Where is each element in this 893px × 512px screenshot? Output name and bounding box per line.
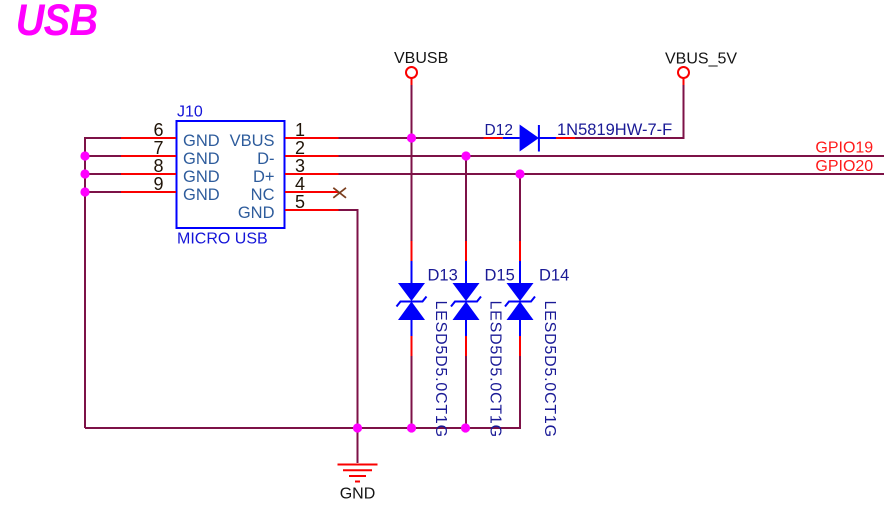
junction dot D15 bus xyxy=(461,423,470,432)
junction dot D15 row2 xyxy=(461,151,470,160)
TVS diode D14 xyxy=(505,241,535,356)
svg-text:7: 7 xyxy=(153,138,163,158)
pin 1 stub xyxy=(285,137,339,139)
svg-text:8: 8 xyxy=(153,156,163,176)
svg-text:GND: GND xyxy=(183,186,220,204)
wire pin6 to bus xyxy=(84,137,121,139)
pin 8 stub xyxy=(121,173,176,175)
wire bottom bus xyxy=(85,427,520,429)
junction dot D14 row3 xyxy=(515,169,524,178)
svg-text:MICRO USB: MICRO USB xyxy=(177,231,268,248)
junction dot VBUSB row1 xyxy=(407,133,416,142)
wire pin9 to bus xyxy=(84,191,121,193)
svg-text:6: 6 xyxy=(153,120,163,140)
svg-text:LESD5D5.0CT1G: LESD5D5.0CT1G xyxy=(432,301,449,438)
svg-text:GPIO19: GPIO19 xyxy=(815,139,873,156)
pin 3 stub xyxy=(285,173,339,175)
svg-text:VBUS_5V: VBUS_5V xyxy=(665,51,737,68)
wire GND stem xyxy=(357,428,359,463)
wire D13 bottom to bus xyxy=(411,356,413,428)
svg-text:GND: GND xyxy=(183,150,220,168)
pin 2 stub xyxy=(285,155,339,157)
junction dot D13 bus xyxy=(407,423,416,432)
wire VBUS row pin1 xyxy=(339,137,484,139)
svg-text:D14: D14 xyxy=(539,267,569,285)
svg-text:D13: D13 xyxy=(428,267,458,285)
svg-text:D-: D- xyxy=(257,150,274,168)
svg-text:1N5819HW-7-F: 1N5819HW-7-F xyxy=(557,121,672,139)
svg-text:2: 2 xyxy=(295,138,305,158)
svg-text:GND: GND xyxy=(238,204,275,222)
wire pin8 to bus xyxy=(84,173,121,175)
svg-text:D15: D15 xyxy=(485,267,515,285)
svg-text:GPIO20: GPIO20 xyxy=(815,158,873,175)
wire D14 top xyxy=(519,174,521,241)
diode D12 xyxy=(484,125,576,152)
svg-text:D12: D12 xyxy=(485,122,513,139)
wire pin7 to bus xyxy=(84,155,121,157)
pin 9 stub xyxy=(121,191,176,193)
wire D15 top xyxy=(465,156,467,241)
wire D14 bottom to bus xyxy=(519,356,521,429)
svg-text:D+: D+ xyxy=(253,168,275,186)
wire D- row pin2 to GPIO19 xyxy=(339,155,885,157)
svg-text:GND: GND xyxy=(340,485,376,502)
power port VBUS_5V xyxy=(665,51,737,86)
no connect X on pin 4 xyxy=(333,188,346,198)
power port VBUSB xyxy=(394,50,448,85)
wire D+ row pin3 to GPIO20 xyxy=(339,173,885,175)
svg-text:GND: GND xyxy=(183,132,220,150)
svg-text:J10: J10 xyxy=(177,104,203,121)
junction dot bus pin7 xyxy=(80,151,89,160)
wire VBUSB vertical upper xyxy=(411,84,413,241)
svg-text:3: 3 xyxy=(295,156,305,176)
svg-text:GND: GND xyxy=(183,168,220,186)
wire D12 cathode to VBUS_5V xyxy=(575,84,684,138)
pin 5 stub xyxy=(285,209,339,211)
connector J10 body xyxy=(177,121,285,228)
pin 6 stub xyxy=(121,137,176,139)
svg-text:1: 1 xyxy=(295,120,305,140)
pin 4 stub xyxy=(285,191,339,193)
svg-text:VBUS: VBUS xyxy=(230,132,275,150)
junction dot GND bus xyxy=(353,423,362,432)
svg-text:LESD5D5.0CT1G: LESD5D5.0CT1G xyxy=(487,301,504,438)
svg-text:LESD5D5.0CT1G: LESD5D5.0CT1G xyxy=(541,301,558,438)
svg-text:NC: NC xyxy=(251,186,275,204)
junction dot bus pin9 xyxy=(80,187,89,196)
svg-text:9: 9 xyxy=(153,174,163,194)
TVS diode D15 xyxy=(451,241,481,356)
wire left bus vertical xyxy=(84,138,86,428)
svg-text:4: 4 xyxy=(295,174,305,194)
pin 7 stub xyxy=(121,155,176,157)
wire pin5 GND down xyxy=(339,210,358,428)
ground symbol xyxy=(338,465,378,482)
svg-text:VBUSB: VBUSB xyxy=(394,50,448,67)
junction dot bus pin8 xyxy=(80,169,89,178)
wire D15 bottom to bus xyxy=(465,356,467,428)
TVS diode D13 xyxy=(397,241,427,356)
svg-text:USB: USB xyxy=(16,0,98,45)
svg-text:5: 5 xyxy=(295,192,305,212)
